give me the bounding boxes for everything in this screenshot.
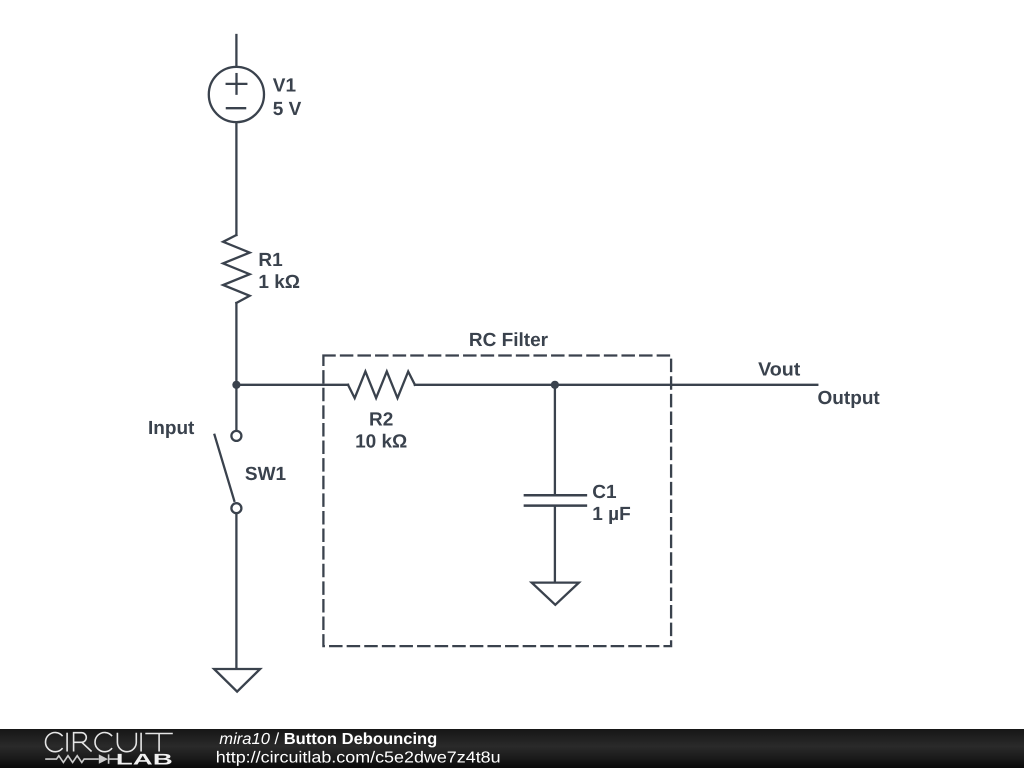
logo schematic squiggle (resistor + diode) — [45, 754, 118, 763]
svg-text:1 kΩ: 1 kΩ — [258, 272, 300, 293]
logo wordmark LAB — [118, 754, 172, 765]
svg-text:Input: Input — [148, 418, 195, 439]
ground — [214, 669, 260, 692]
wire — [415, 384, 817, 386]
svg-text:10 kΩ: 10 kΩ — [355, 432, 407, 453]
node Vout junction — [551, 381, 559, 389]
svg-text:R2: R2 — [369, 410, 393, 431]
svg-text:http://circuitlab.com/c5e2dwe7: http://circuitlab.com/c5e2dwe7z4t8u — [216, 750, 501, 767]
svg-text:V1: V1 — [273, 76, 297, 97]
svg-text:1 µF: 1 µF — [592, 504, 630, 525]
wire — [235, 385, 237, 431]
RC Filter box — [323, 356, 671, 647]
svg-text:mira10 / Button Debouncing: mira10 / Button Debouncing — [219, 731, 437, 748]
ground — [532, 583, 579, 605]
resistor R1 — [223, 235, 250, 303]
svg-text:R1: R1 — [258, 250, 283, 271]
CircuitLab logo wordmark CIRCUIT — [46, 733, 173, 752]
svg-text:SW1: SW1 — [245, 464, 287, 485]
wire — [554, 385, 556, 495]
node A junction — [232, 381, 240, 389]
wire — [554, 506, 556, 582]
svg-text:Output: Output — [818, 388, 881, 409]
svg-text:5 V: 5 V — [273, 99, 302, 120]
capacitor C1 — [525, 495, 586, 505]
switch SW1 — [215, 431, 242, 513]
svg-text:C1: C1 — [592, 482, 617, 503]
wire — [235, 303, 237, 385]
resistor R2 — [348, 372, 415, 399]
wire — [235, 35, 237, 66]
wire — [236, 384, 348, 386]
svg-text:Vout: Vout — [758, 359, 801, 380]
wire — [235, 123, 237, 235]
voltage source V1 — [209, 67, 264, 122]
svg-text:RC Filter: RC Filter — [469, 330, 549, 351]
wire — [235, 514, 237, 669]
